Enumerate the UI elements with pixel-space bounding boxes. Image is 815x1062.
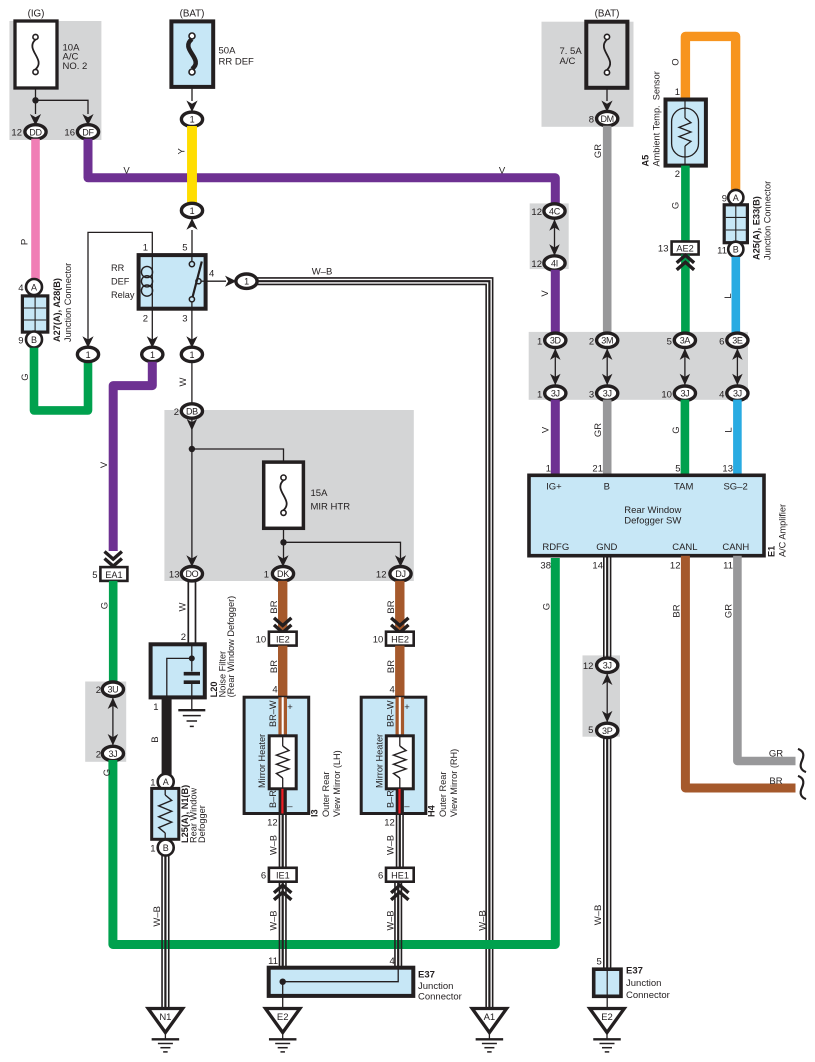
svg-text:10: 10 [373, 635, 384, 646]
svg-text:4: 4 [390, 685, 395, 696]
connector 3U [102, 682, 123, 696]
arrow into connector under pin 2 [147, 336, 158, 348]
svg-text:W–B: W–B [312, 267, 333, 278]
connector 1 left of relay [77, 347, 98, 361]
panel IG fuse block [9, 21, 101, 140]
svg-text:BR: BR [386, 660, 397, 673]
junction connector A27(A) A28(B) box [22, 296, 47, 332]
svg-text:IE1: IE1 [276, 871, 290, 881]
connector 3M [597, 333, 618, 347]
terminal A of A25 [728, 190, 743, 205]
svg-text:G: G [542, 603, 553, 610]
mirror heater resistor element [399, 736, 401, 746]
svg-text:Relay: Relay [111, 290, 135, 300]
svg-text:Junction: Junction [626, 978, 661, 989]
wire L blue A25 to 3E [731, 257, 740, 334]
chevron into IE2 [274, 618, 291, 626]
svg-text:50A: 50A [219, 46, 237, 57]
svg-text:BR: BR [269, 660, 280, 673]
svg-text:E2: E2 [601, 1012, 613, 1023]
connector 3J [102, 746, 123, 760]
wire B black noise filter to defogger [162, 697, 172, 775]
junction connector E37 box [269, 968, 414, 996]
svg-text:11: 11 [268, 956, 278, 967]
wire GR gray 3J to B [603, 400, 612, 476]
svg-text:W–B: W–B [386, 835, 396, 855]
wire G green A27 to relay connector [34, 348, 88, 411]
svg-text:–: – [287, 801, 293, 812]
svg-text:Junction Connector: Junction Connector [763, 181, 773, 260]
junction connector A25(A) E33(B) box [724, 205, 747, 243]
svg-text:11: 11 [723, 561, 733, 572]
wire G green 3J to TAM [681, 400, 690, 476]
svg-text:12: 12 [11, 128, 22, 139]
svg-text:DB: DB [186, 406, 198, 416]
arrow up into connector 1 [186, 218, 197, 230]
terminal DF [77, 125, 98, 139]
connector 1 under relay pin 3 [181, 347, 202, 361]
arrows between 3E and 3J [736, 348, 738, 385]
svg-text:GR: GR [769, 749, 783, 760]
svg-text:1: 1 [244, 277, 249, 287]
wire BR-W inside mirror [395, 697, 404, 736]
wire W-B relay to ground A1 [257, 278, 493, 1009]
svg-text:B: B [733, 245, 739, 255]
svg-text:3P: 3P [602, 726, 613, 736]
terminal DO [181, 567, 202, 581]
ambient temp sensor A5 box [666, 100, 706, 166]
wire E37 to ground E2 [282, 982, 284, 1009]
svg-text:5: 5 [588, 725, 593, 736]
svg-text:12: 12 [670, 561, 681, 572]
svg-text:DJ: DJ [395, 569, 405, 579]
relay switch contact [191, 255, 193, 261]
terminal DK [272, 567, 293, 581]
continuation brace BR [798, 776, 806, 799]
fuse 15A element [281, 475, 286, 480]
svg-text:GR: GR [724, 604, 735, 618]
ground triangle E2 right [590, 1009, 625, 1033]
svg-text:1: 1 [537, 389, 542, 400]
svg-text:GR: GR [593, 144, 604, 158]
svg-text:MIR HTR: MIR HTR [311, 502, 351, 513]
svg-text:+: + [287, 702, 293, 713]
wire W relay pin3 connector to DB [191, 362, 193, 404]
svg-text:V: V [99, 461, 110, 468]
svg-text:E2: E2 [277, 1012, 289, 1023]
wire V purple 4I to 3D [551, 270, 560, 334]
svg-text:Junction Connector: Junction Connector [63, 263, 73, 342]
svg-text:12: 12 [531, 207, 542, 218]
svg-text:2: 2 [589, 336, 594, 347]
wire V purple DF right across to column 4C [88, 139, 555, 205]
fuse 7.5A element [604, 34, 609, 39]
wire branch to DD [35, 100, 37, 114]
svg-text:1: 1 [190, 115, 195, 125]
arrows between 4C and 4I [554, 219, 556, 256]
svg-text:3A: 3A [680, 336, 691, 346]
wire GR gray CANH to right edge [737, 556, 795, 761]
wire BR brown IE2 to mirror heater [278, 646, 287, 700]
connector 4I [544, 256, 565, 270]
svg-text:P: P [20, 239, 31, 245]
svg-text:A27(A), A28(B): A27(A), A28(B) [52, 278, 62, 342]
svg-text:6: 6 [378, 871, 383, 882]
wire W-B GND to 3J [610, 556, 612, 659]
svg-text:BR: BR [269, 600, 280, 613]
svg-text:E37: E37 [626, 966, 643, 977]
svg-text:3J: 3J [680, 389, 689, 399]
arrow into connector 1 left [82, 336, 93, 348]
svg-text:2: 2 [96, 685, 101, 696]
svg-text:12: 12 [267, 818, 278, 829]
svg-text:2: 2 [174, 407, 179, 418]
svg-text:+: + [404, 702, 410, 713]
svg-text:15A: 15A [311, 488, 329, 499]
svg-text:A5: A5 [641, 155, 651, 167]
svg-text:4I: 4I [551, 258, 558, 268]
wire G green 3J down right up to RDFG pin 38 [113, 558, 555, 945]
connector 3J under 3M [597, 386, 618, 400]
svg-text:H4: H4 [427, 804, 437, 817]
svg-text:2: 2 [143, 314, 148, 325]
svg-text:12: 12 [531, 259, 542, 270]
arrow into connector at pin 4 [225, 276, 237, 287]
ground triangle A1 [472, 1009, 507, 1033]
svg-text:(IG): (IG) [28, 9, 45, 20]
svg-text:A: A [733, 193, 739, 203]
svg-text:3: 3 [589, 389, 594, 400]
svg-text:CANH: CANH [722, 542, 749, 553]
connector 3E [727, 333, 748, 347]
wire W-B 3P to E37 [610, 738, 612, 972]
wire Y yellow fuse 50A to connector [187, 126, 197, 204]
svg-text:O: O [671, 58, 682, 65]
arrow into DO [186, 555, 197, 567]
connector 1 bottom of yellow [181, 203, 202, 217]
svg-text:W–B: W–B [386, 911, 396, 931]
wire GR gray DM to 3M [603, 126, 612, 334]
svg-text:6: 6 [261, 871, 266, 882]
fuse 10A element [33, 34, 38, 39]
fuse 50A RR DEF box [171, 21, 213, 87]
svg-text:21: 21 [592, 464, 603, 475]
terminal DM [597, 111, 618, 125]
arrow below DB [187, 419, 198, 431]
wire relay pin 1 loop to connector 1 [88, 232, 152, 347]
connector EA1 [100, 567, 127, 581]
svg-text:9: 9 [722, 194, 727, 205]
connector 4C [544, 204, 565, 218]
svg-text:IG+: IG+ [546, 482, 562, 493]
svg-text:1: 1 [537, 336, 542, 347]
svg-text:A: A [163, 777, 169, 787]
fuse 50A element [189, 33, 195, 39]
svg-text:BR: BR [769, 776, 782, 787]
svg-text:GND: GND [596, 542, 617, 553]
svg-text:(BAT): (BAT) [180, 9, 205, 20]
wire G green sensor to AE2 [681, 166, 690, 242]
junction connector E37 right box [594, 969, 621, 996]
connector 3D [545, 333, 566, 347]
connector 3J under 3E [727, 386, 748, 400]
svg-text:11: 11 [717, 245, 727, 256]
svg-text:B: B [163, 843, 169, 853]
wire P pink DD to junction connector A [31, 139, 40, 280]
arrows between 3J and 3P [606, 674, 608, 723]
svg-text:3: 3 [182, 314, 187, 325]
panel center relay block DB DO DK DJ [164, 410, 413, 581]
svg-text:BR: BR [672, 604, 683, 617]
svg-text:View Mirror (LH): View Mirror (LH) [332, 750, 342, 817]
wire V purple relay to EA1 [113, 362, 152, 551]
svg-text:4: 4 [209, 269, 214, 280]
noise filter internals [191, 644, 193, 658]
noise filter L20 box [151, 644, 205, 697]
wire O orange sensor loop to A25 [685, 36, 735, 191]
wire W-B HE1 to E37 [400, 882, 402, 968]
ground symbol N1 [164, 1033, 166, 1040]
svg-text:A1: A1 [484, 1012, 496, 1023]
chevron up below IE1 [274, 892, 291, 900]
svg-text:16: 16 [64, 128, 75, 139]
svg-text:HE2: HE2 [391, 635, 409, 645]
svg-text:14: 14 [592, 561, 603, 572]
svg-text:5: 5 [667, 336, 672, 347]
svg-text:Ambient Temp. Sensor: Ambient Temp. Sensor [652, 71, 662, 166]
connector 1 at relay pin 4 [236, 274, 257, 288]
ground symbol A1 [488, 1033, 490, 1040]
svg-text:B–R: B–R [385, 790, 395, 808]
fuse 10A A/C NO.2 box [15, 21, 57, 88]
svg-text:DM: DM [600, 114, 613, 124]
svg-text:13: 13 [722, 464, 733, 475]
svg-text:1: 1 [153, 702, 158, 713]
rear window defogger L25 box [152, 788, 179, 839]
chevron up below HE1 [391, 892, 408, 900]
relay coil [151, 255, 153, 309]
wire BR brown I3 feed [278, 581, 287, 632]
svg-text:4: 4 [272, 685, 277, 696]
terminal A of A27 [26, 279, 42, 295]
svg-text:G: G [20, 373, 31, 380]
svg-text:6: 6 [719, 336, 724, 347]
svg-text:RDFG: RDFG [542, 542, 569, 553]
continuation brace GR [798, 749, 806, 772]
svg-text:G: G [99, 602, 110, 609]
wire relay pin 2 down [151, 309, 153, 343]
svg-text:3J: 3J [551, 389, 560, 399]
ground triangle N1 [148, 1009, 183, 1033]
arrow into DM [601, 101, 612, 113]
svg-text:A: A [31, 282, 37, 292]
arrows between 3D and 3J [554, 348, 556, 385]
fuse 7.5A A/C box [586, 22, 627, 88]
terminal DD [25, 125, 46, 139]
svg-text:G: G [671, 202, 682, 209]
A/C amplifier E1 box Rear Window Defogger SW [529, 475, 764, 555]
arrow into connector under pin 3 [186, 336, 197, 348]
connector AE2 [672, 242, 699, 255]
svg-text:BR–W: BR–W [268, 700, 278, 727]
svg-text:G: G [102, 769, 113, 776]
wire fuse to DK DJ [283, 528, 285, 562]
wire V purple 3J to IG+ [551, 400, 560, 476]
arrow into connector 1 [186, 101, 197, 113]
svg-text:V: V [499, 166, 506, 177]
wire W-B mirror I3 to IE1 [285, 814, 287, 868]
arrow into DK [277, 555, 288, 567]
svg-text:B: B [31, 335, 37, 345]
svg-text:SG–2: SG–2 [723, 482, 747, 493]
svg-text:2: 2 [675, 169, 680, 180]
svg-text:DK: DK [277, 569, 289, 579]
svg-text:W: W [178, 602, 189, 611]
ground symbol E2 right [606, 1033, 608, 1040]
connector HE1 [386, 868, 414, 882]
connector 3J under 3A [674, 386, 695, 400]
svg-text:AE2: AE2 [676, 244, 693, 254]
svg-text:–: – [404, 801, 410, 812]
svg-text:3U: 3U [107, 685, 118, 695]
svg-text:W: W [178, 377, 189, 386]
svg-text:E1: E1 [767, 546, 777, 557]
wire branch to DF [36, 100, 89, 114]
wire B-R inside mirror [396, 789, 404, 814]
svg-text:4: 4 [18, 283, 23, 294]
svg-text:DF: DF [82, 127, 94, 137]
outer rear view mirror I3 box [244, 697, 309, 813]
E37 internal wiring [283, 969, 399, 982]
outer rear view mirror H4 box [361, 697, 426, 813]
wire fuse to junction [35, 88, 37, 100]
connector 3P [597, 723, 618, 737]
svg-text:B: B [150, 736, 161, 742]
svg-text:(BAT): (BAT) [595, 9, 620, 20]
svg-text:N1: N1 [159, 1012, 171, 1023]
svg-text:V: V [540, 426, 551, 433]
svg-text:GR: GR [593, 423, 604, 437]
svg-text:1: 1 [675, 87, 680, 98]
wire L blue 3J to SG-2 [733, 400, 742, 476]
mirror heater resistor element [282, 736, 284, 746]
svg-text:1: 1 [143, 243, 148, 254]
arrows between 3M and 3J [606, 348, 608, 385]
svg-text:Mirror Heater: Mirror Heater [257, 734, 267, 788]
wire BR brown H4 feed [395, 581, 404, 632]
svg-text:RR DEF: RR DEF [219, 57, 255, 68]
svg-text:CANL: CANL [672, 542, 697, 553]
svg-text:W–B: W–B [593, 905, 604, 926]
svg-text:L: L [723, 293, 734, 298]
mirror heater resistor box [269, 736, 296, 789]
svg-text:1: 1 [150, 844, 155, 855]
connector 3J below GND [597, 658, 618, 672]
terminal B defogger [158, 840, 174, 856]
svg-text:Junction: Junction [418, 981, 453, 992]
svg-text:1: 1 [150, 778, 155, 789]
svg-text:5: 5 [182, 243, 187, 254]
svg-text:View Mirror (RH): View Mirror (RH) [449, 749, 459, 817]
svg-text:3J: 3J [603, 661, 612, 671]
svg-text:IE2: IE2 [276, 635, 290, 645]
wire fuse to connector [191, 87, 193, 101]
arrow into DD [30, 114, 41, 126]
svg-text:V: V [123, 166, 130, 177]
svg-text:1: 1 [150, 350, 155, 360]
wire W-B defogger to ground N1 [168, 855, 170, 1009]
svg-text:Connector: Connector [418, 992, 462, 1003]
ground symbol E2 [282, 1033, 284, 1040]
svg-text:W–B: W–B [152, 906, 163, 927]
svg-text:A25(A), E33(B): A25(A), E33(B) [752, 196, 762, 260]
svg-text:4C: 4C [549, 206, 561, 216]
chevron into EA1 [105, 552, 122, 560]
svg-text:13: 13 [169, 570, 180, 581]
defogger resistor element [164, 788, 166, 795]
wire DB to DO and fuse branch [191, 418, 193, 562]
sensor internals [684, 100, 686, 111]
wire BR brown HE2 to mirror heater [395, 646, 404, 700]
svg-text:3M: 3M [601, 336, 613, 346]
svg-text:V: V [540, 290, 551, 297]
svg-text:3D: 3D [550, 336, 562, 346]
svg-text:5: 5 [675, 464, 680, 475]
svg-text:13: 13 [658, 244, 669, 255]
connector 3J under 3D [545, 386, 566, 400]
svg-text:2: 2 [96, 750, 101, 761]
terminal B of A25 [728, 242, 743, 257]
svg-text:DEF: DEF [111, 277, 130, 287]
ground of noise filter [178, 709, 205, 711]
mirror heater resistor box [386, 736, 413, 789]
connector IE1 [269, 868, 297, 882]
svg-text:4: 4 [390, 956, 395, 967]
relay RR DEF box [139, 255, 206, 309]
svg-text:10: 10 [661, 389, 672, 400]
wire G green AE2 to 3A [681, 255, 690, 335]
svg-text:Defogger: Defogger [197, 805, 207, 843]
svg-text:L: L [723, 427, 734, 432]
svg-text:1: 1 [264, 570, 269, 581]
svg-text:3J: 3J [108, 749, 117, 759]
svg-text:A/C: A/C [560, 56, 576, 67]
connector 1 under relay pin 2 [142, 347, 163, 361]
panel connector row 3D 3M 3A 3E / 3J [529, 332, 748, 400]
wire W-B IE1 to E37 [285, 882, 287, 968]
connector 3A [674, 333, 695, 347]
svg-text:B: B [604, 482, 610, 493]
wire BR brown CANL to right edge [685, 556, 795, 788]
panel connector 4C-4I [530, 203, 569, 269]
wire B-R inside mirror [279, 789, 287, 814]
arrows between 3A and 3J [684, 348, 686, 385]
terminal B of A27 [26, 332, 42, 348]
svg-text:3E: 3E [732, 336, 743, 346]
arrows between 3U and 3J [112, 698, 114, 746]
svg-text:BR–W: BR–W [385, 700, 395, 727]
chevron into HE2 [391, 618, 408, 626]
panel BAT 7.5A fuse block [542, 22, 634, 127]
svg-text:Outer Rear: Outer Rear [321, 772, 331, 817]
node junction dot [32, 97, 38, 103]
wire W white DO to noise filter [195, 581, 197, 644]
svg-text:EA1: EA1 [105, 570, 122, 580]
svg-text:G: G [671, 426, 682, 433]
svg-text:10: 10 [256, 635, 267, 646]
svg-text:E37: E37 [418, 970, 435, 981]
wire G green EA1 to 3U [109, 581, 118, 683]
